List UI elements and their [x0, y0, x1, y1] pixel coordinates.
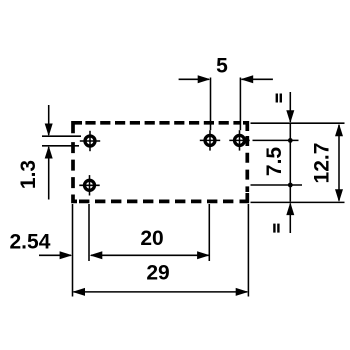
svg-text:1.3: 1.3 — [17, 160, 40, 189]
svg-text:2.54: 2.54 — [10, 230, 51, 253]
svg-text:12.7: 12.7 — [311, 143, 334, 184]
svg-text:5: 5 — [216, 54, 228, 77]
svg-text:20: 20 — [140, 227, 163, 250]
svg-text:29: 29 — [146, 262, 169, 285]
svg-text:7.5: 7.5 — [263, 147, 286, 177]
